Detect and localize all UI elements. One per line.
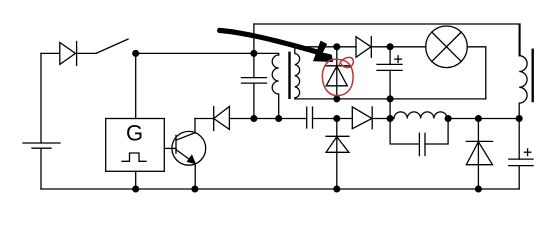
- capacitor C5: [509, 159, 533, 189]
- node H: [445, 116, 451, 122]
- wire lamp right down: [467, 47, 486, 99]
- wire link rails at x390: [389, 99, 391, 119]
- node bottom D7: [334, 186, 340, 192]
- capacitor C2: [377, 64, 402, 99]
- diode D2: [214, 107, 254, 131]
- wire mid rail right: [448, 118, 519, 120]
- wire emitter down: [194, 164, 196, 190]
- node bottom Q1: [192, 186, 198, 192]
- battery B1: [23, 53, 60, 189]
- wire left rail top: [41, 52, 60, 54]
- lamp H1: [426, 26, 468, 68]
- node bottom G1: [133, 186, 139, 192]
- diode D7 (to ground): [326, 119, 349, 190]
- transistor Q1: [172, 131, 206, 165]
- diode D1: [60, 42, 96, 66]
- wire generator to transistor base: [164, 147, 176, 149]
- plus sign C2: [395, 56, 402, 63]
- plus sign C5: [524, 149, 531, 156]
- capacitor C1: [242, 78, 267, 119]
- wire node E down to capacitor C2: [389, 47, 391, 65]
- wire secondary top lead: [295, 46, 337, 48]
- transformer T1 core: [288, 53, 290, 98]
- node mid rail C1: [251, 116, 257, 122]
- transformer T1 secondary winding: [295, 47, 300, 99]
- capacitor C4 tank: [390, 119, 448, 156]
- node bottom D6: [476, 186, 482, 192]
- diode D4 (circled): [326, 47, 349, 99]
- wire node A down to generator: [135, 53, 137, 118]
- switch S1: [96, 39, 128, 53]
- transformer T1 primary winding: [272, 55, 279, 119]
- wire node B down to capacitor C1: [253, 53, 255, 77]
- wire node J down: [518, 119, 520, 160]
- node B: [251, 51, 257, 57]
- svg-text:G: G: [126, 121, 143, 146]
- node I: [476, 116, 482, 122]
- node J: [516, 116, 522, 122]
- node E: [387, 44, 393, 50]
- annotation arrow (hand-drawn): [217, 28, 333, 62]
- inductor L2: [390, 112, 448, 119]
- wire node A to node B: [136, 52, 254, 54]
- wire mid rail to capacitor C3: [279, 118, 307, 120]
- wire node B up: [253, 24, 255, 53]
- wire generator bottom: [135, 171, 137, 189]
- annotation red circle: [322, 57, 353, 95]
- wire node F to diode D5: [337, 118, 353, 120]
- wire collector up: [194, 119, 196, 133]
- wire node B to transformer primary: [254, 53, 279, 55]
- inductor L1 core: [532, 50, 534, 101]
- node secondary-rail at D4: [334, 96, 340, 102]
- diode D6 (to ground): [466, 119, 492, 190]
- diode D3: [356, 37, 390, 58]
- node secondary-rail at C2: [387, 96, 393, 102]
- inductor L1 right: [519, 24, 527, 119]
- capacitor C3: [307, 107, 337, 128]
- node F: [334, 116, 340, 122]
- node D: [334, 44, 340, 50]
- diode D5: [352, 107, 390, 129]
- wire secondary bottom rail: [295, 98, 486, 100]
- wire bottom bus: [41, 188, 519, 190]
- wire mid rail: [254, 118, 279, 120]
- wire mid rail left: [195, 118, 214, 120]
- wire node D to diode D3: [337, 46, 356, 48]
- node A: [133, 51, 139, 57]
- wire node E to lamp: [390, 46, 426, 48]
- node G2: [387, 116, 393, 122]
- generator G1 box: [106, 119, 165, 172]
- wire top rail: [254, 24, 520, 56]
- node mid rail T1: [276, 116, 282, 122]
